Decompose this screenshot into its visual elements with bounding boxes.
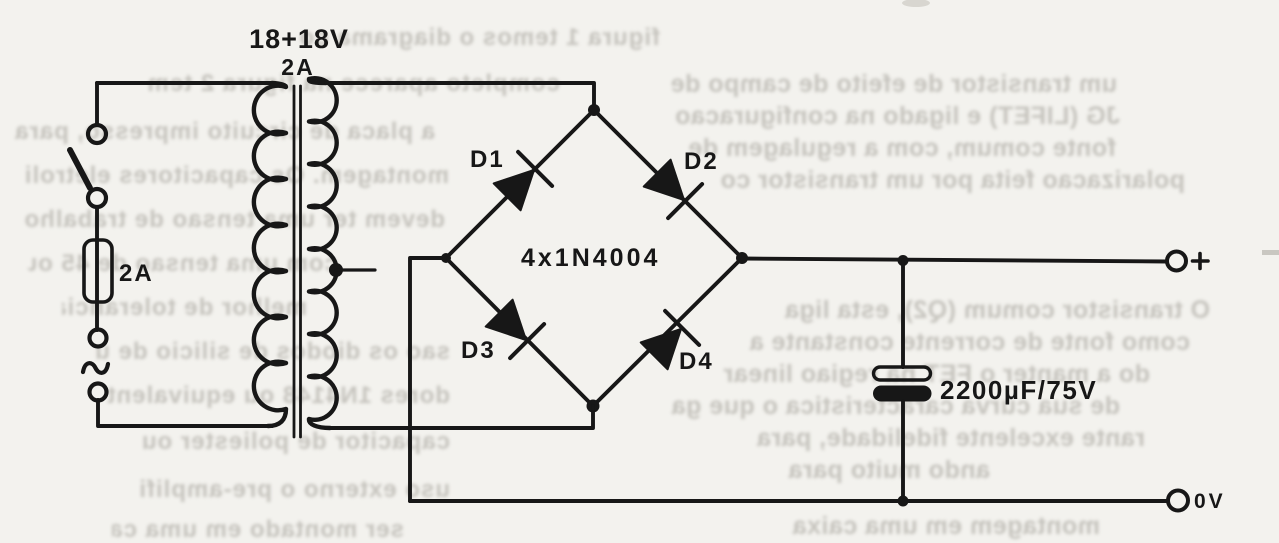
fuse F1: [84, 240, 112, 302]
bridge rectifier edges: [446, 110, 742, 406]
label +: [1193, 254, 1209, 269]
wire: drop to switch: [95, 83, 99, 125]
svg-text:0V: 0V: [1194, 490, 1226, 513]
transformer T1 secondary winding: [309, 78, 337, 428]
paper smudge: [902, 0, 930, 7]
svg-text:D4: D4: [679, 348, 714, 375]
wire: AC source to transformer primary bottom: [98, 400, 272, 426]
terminal 0V: [1168, 491, 1188, 511]
wire: switch to fuse: [95, 207, 99, 330]
svg-text:D1: D1: [470, 146, 505, 173]
node: bridge right: [736, 252, 748, 264]
diode D1: [494, 152, 552, 210]
svg-text:D3: D3: [461, 337, 496, 364]
wire: top rail left: [97, 81, 272, 85]
svg-text:2200µF/75V: 2200µF/75V: [940, 375, 1097, 405]
paper mark right edge: [1262, 250, 1279, 255]
svg-text:2A: 2A: [119, 260, 154, 287]
AC source: [83, 330, 108, 401]
transformer T1 core: [294, 86, 301, 437]
diode D4: [641, 311, 699, 369]
transformer center tap: [329, 263, 375, 277]
transformer T1 primary winding: [254, 83, 286, 426]
node: bridge top: [588, 104, 600, 116]
svg-text:2A: 2A: [281, 54, 314, 80]
diode D2: [644, 160, 702, 218]
node: capacitor junction positive: [898, 255, 909, 266]
node: bridge bottom: [587, 400, 600, 413]
capacitor C1 electrolytic: [873, 261, 932, 502]
svg-text:18+18V: 18+18V: [249, 24, 349, 54]
wire: top rail right: [326, 83, 594, 110]
svg-text:4x1N4004: 4x1N4004: [521, 244, 660, 272]
wire: positive rail: [742, 259, 1167, 262]
diode D3: [486, 300, 544, 358]
wire: bridge left node to 0V rail: [410, 258, 446, 501]
switch S1: [70, 125, 106, 207]
wire: secondary bottom rail: [326, 406, 593, 428]
wire: 0V rail: [410, 499, 1167, 503]
terminal positive: [1167, 252, 1186, 271]
node: capacitor junction 0V: [898, 496, 909, 507]
svg-text:D2: D2: [684, 148, 719, 175]
node: bridge left: [441, 253, 451, 263]
